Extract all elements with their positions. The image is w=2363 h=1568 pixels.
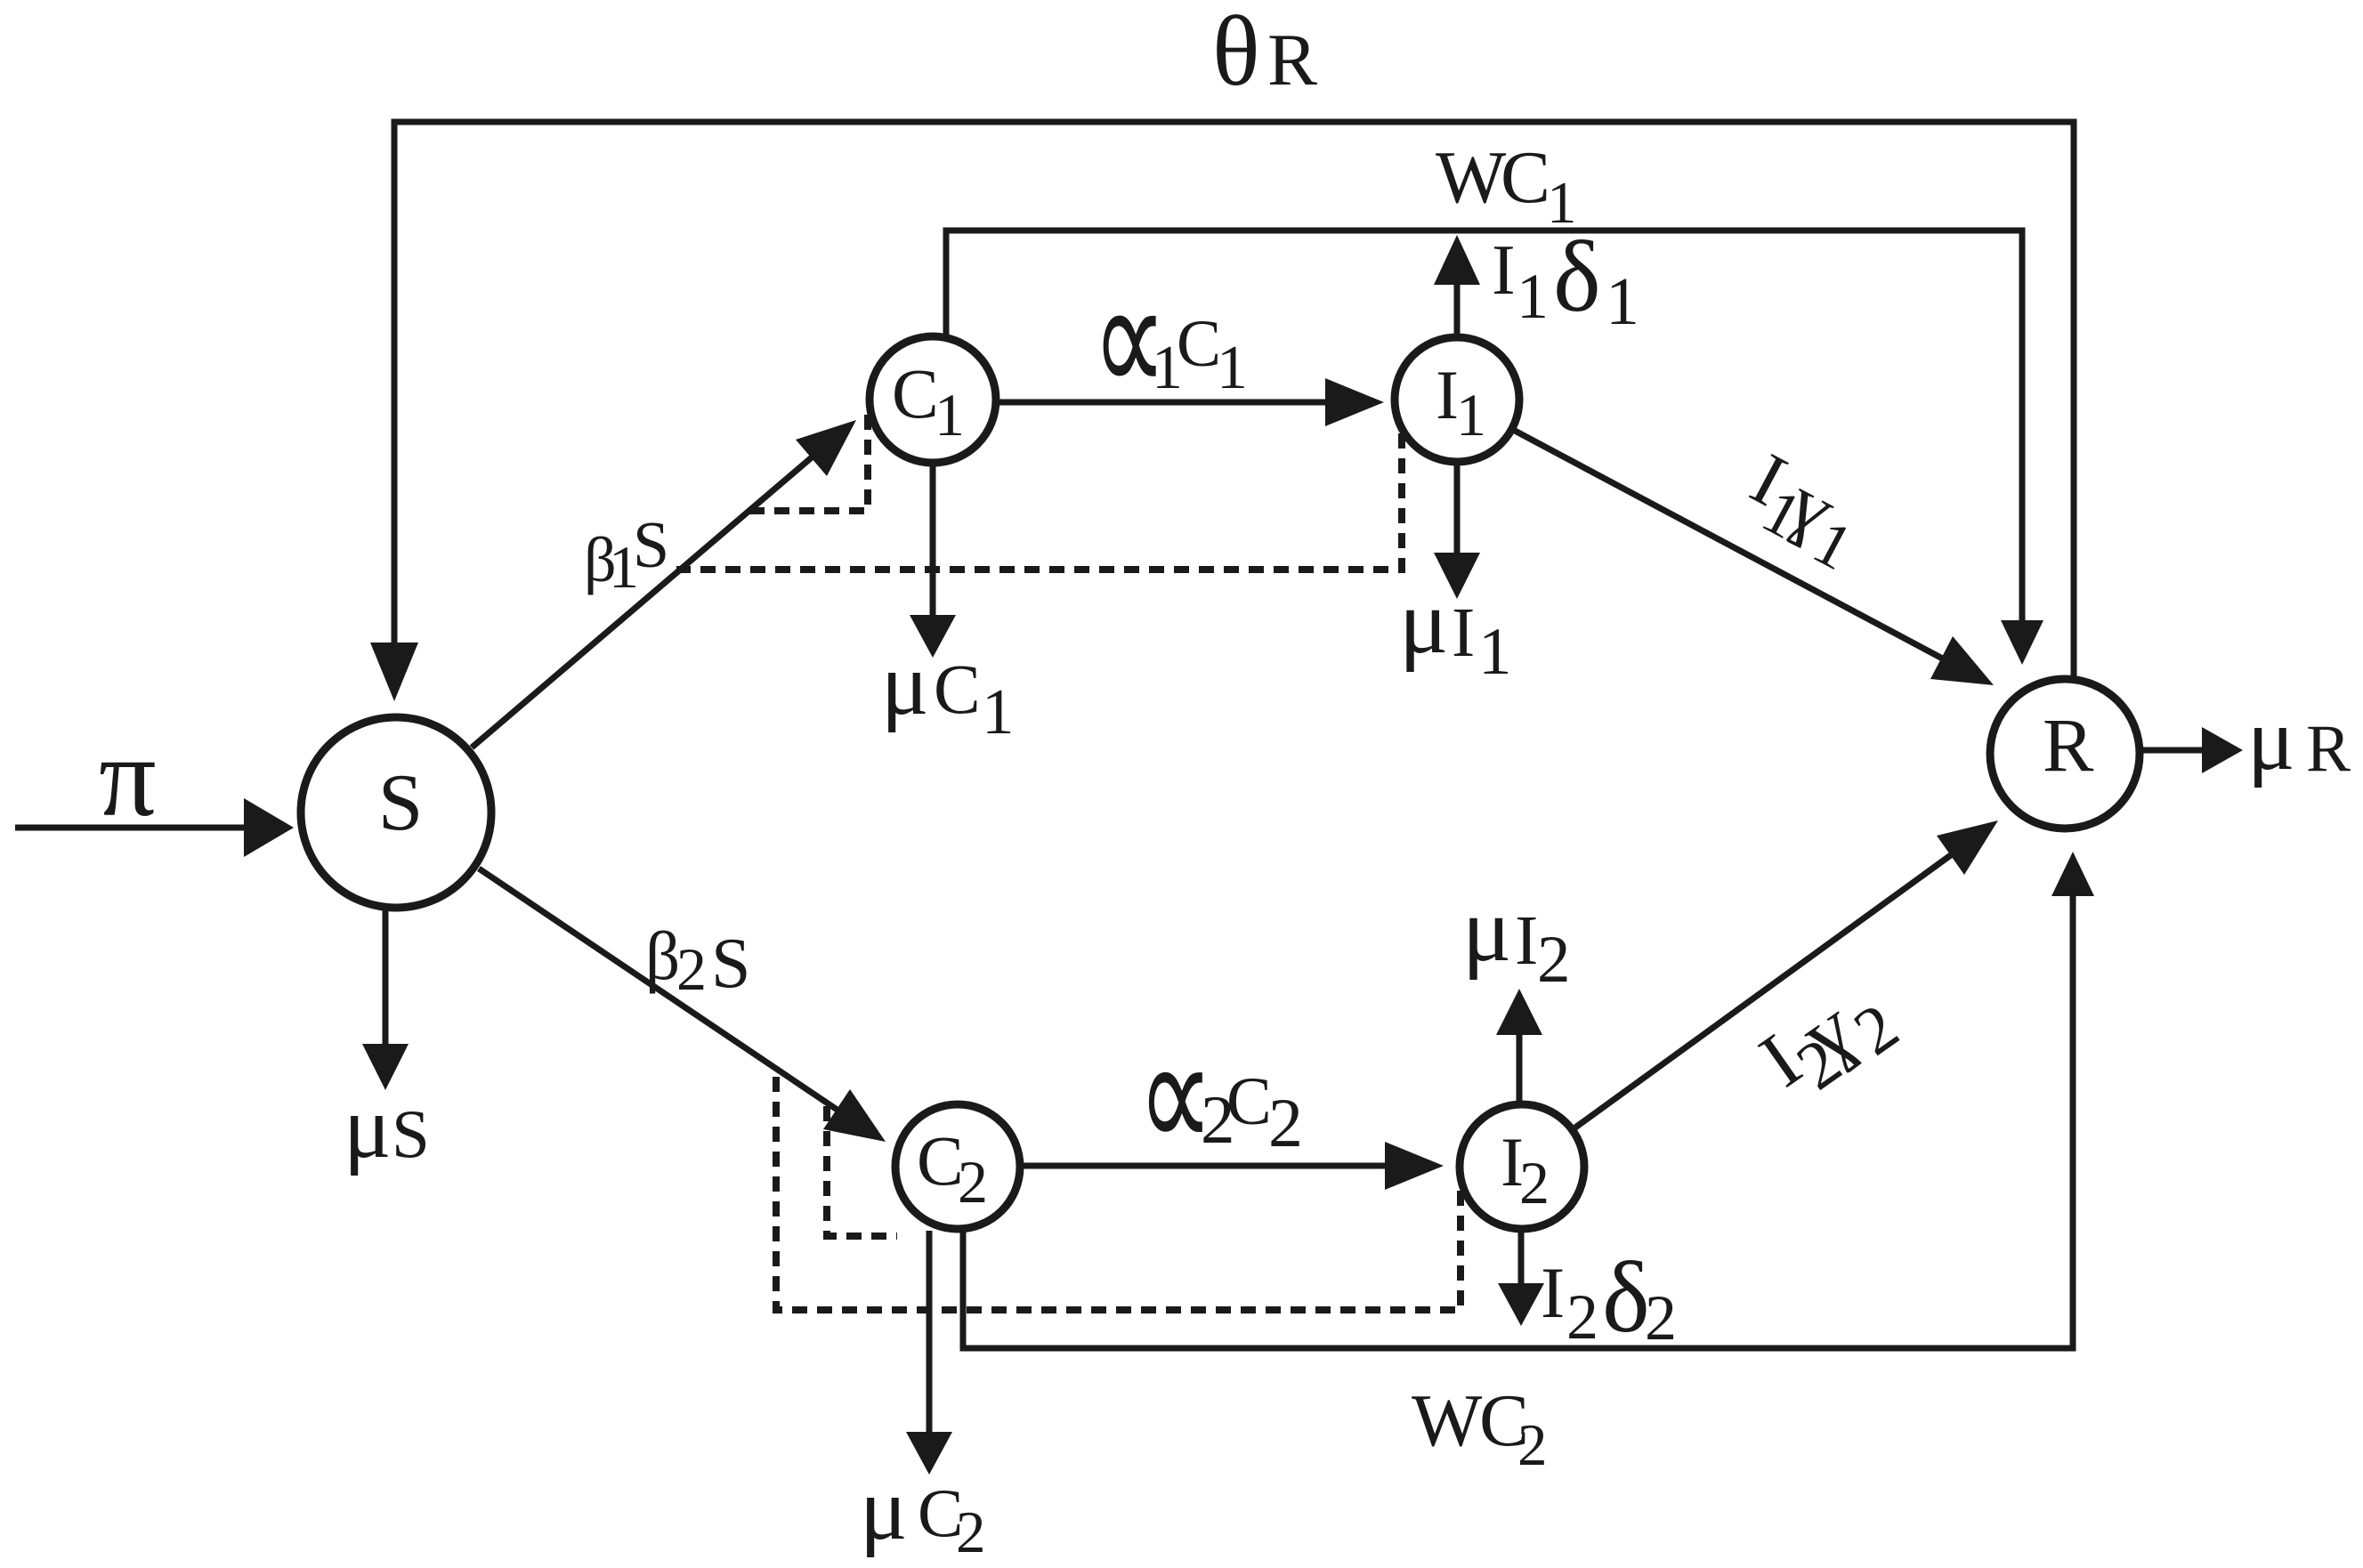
svg-text:1: 1: [1217, 334, 1248, 402]
arrow alpha2C2 from C2 to I2: [1024, 1142, 1444, 1190]
svg-text:θ: θ: [1212, 0, 1260, 107]
label I1gamma1: [1728, 438, 1880, 584]
label muI1: [1399, 571, 1512, 689]
arrow beta2S from S to C2: [479, 869, 886, 1142]
wire WC1 loop from C1 top to R top: [946, 230, 2043, 665]
arrow muS out of S: [362, 910, 409, 1090]
node I2 label: [1501, 1123, 1550, 1216]
svg-text:R: R: [1267, 19, 1317, 101]
svg-text:R: R: [2306, 712, 2351, 786]
label alpha2C2: [1137, 1007, 1303, 1184]
svg-text:1: 1: [1606, 264, 1639, 339]
svg-text:W: W: [1436, 136, 1507, 219]
svg-text:C: C: [934, 651, 981, 729]
arrow beta1S from S to C1: [472, 420, 856, 748]
dashed feedback line C2 to beta2S: [827, 1106, 897, 1236]
svg-text:1: 1: [1456, 381, 1486, 449]
svg-text:2: 2: [676, 935, 707, 1003]
arrow muR out of R: [2143, 727, 2243, 773]
svg-text:C: C: [892, 356, 939, 433]
svg-text:μ: μ: [344, 1078, 392, 1176]
svg-text:μ: μ: [1462, 879, 1511, 981]
label I2delta2: [1541, 1241, 1677, 1354]
svg-text:S: S: [711, 925, 751, 1003]
label I2gamma2: [1745, 960, 1912, 1122]
svg-text:2: 2: [1566, 1281, 1598, 1353]
svg-text:2: 2: [956, 1499, 986, 1564]
label muS: [344, 1078, 430, 1176]
svg-text:C: C: [917, 1123, 964, 1200]
label beta1S: [584, 509, 669, 601]
label muR: [2247, 690, 2351, 788]
svg-text:W: W: [1412, 1379, 1483, 1462]
label beta2S: [645, 917, 751, 1003]
svg-text:I: I: [1492, 231, 1516, 310]
arrow I1delta1 up out of I1: [1434, 235, 1480, 335]
svg-text:μ: μ: [1399, 571, 1448, 673]
label muI2: [1462, 879, 1571, 997]
node C1 label: [892, 356, 965, 449]
svg-text:μ: μ: [881, 634, 929, 733]
wire WC2 loop from C2 bottom to R bottom: [963, 852, 2094, 1348]
dashed feedback line I2 to beta2S: [776, 1071, 1461, 1310]
svg-text:1: 1: [935, 381, 965, 449]
arrow I2delta2 down out of I2: [1498, 1231, 1544, 1326]
svg-text:C: C: [1177, 307, 1221, 381]
svg-text:S: S: [392, 1095, 430, 1172]
label WC2: [1412, 1379, 1548, 1478]
svg-text:π: π: [99, 714, 157, 840]
arrow alpha1C1 from C1 to I1: [999, 378, 1384, 426]
svg-text:δ: δ: [1553, 220, 1601, 333]
label WC1: [1436, 136, 1577, 236]
svg-text:S: S: [378, 757, 424, 847]
node I1 label: [1436, 356, 1486, 449]
svg-text:μ: μ: [860, 1459, 908, 1558]
arrow pi into S: [15, 798, 294, 857]
arrow muI1 down out of I1: [1434, 464, 1480, 599]
label muC2: [860, 1459, 986, 1565]
svg-text:2: 2: [1537, 923, 1571, 997]
svg-text:C: C: [1501, 136, 1550, 219]
svg-text:2: 2: [1519, 1149, 1550, 1216]
dashed feedback line C1 to beta1S: [742, 415, 868, 511]
svg-text:1: 1: [1478, 615, 1512, 689]
svg-text:2: 2: [1268, 1084, 1303, 1161]
node S circle: [301, 717, 491, 908]
arrow muC2 out of C2: [906, 1231, 952, 1475]
svg-text:2: 2: [1645, 1282, 1677, 1354]
wire thetaR loop from R up over the top into S: [370, 122, 2074, 701]
svg-text:I: I: [1541, 1252, 1565, 1333]
svg-text:1: 1: [1517, 261, 1549, 332]
label alpha1C1: [1092, 252, 1248, 430]
label thetaR: [1212, 0, 1317, 107]
svg-text:μ: μ: [2247, 690, 2295, 788]
svg-text:2: 2: [958, 1148, 988, 1216]
svg-text:S: S: [633, 509, 669, 582]
dashed feedback line I1 to beta1S: [676, 433, 1402, 570]
svg-text:I: I: [1515, 902, 1538, 980]
node C1 circle: [870, 336, 996, 463]
svg-text:R: R: [2043, 702, 2094, 788]
svg-text:β: β: [645, 917, 680, 994]
node R circle: [1990, 679, 2140, 828]
node C2 label: [917, 1123, 988, 1216]
svg-text:C: C: [1226, 1064, 1272, 1139]
svg-text:I: I: [1452, 594, 1475, 672]
arrow I2gamma2 from I2 to R: [1575, 820, 1998, 1128]
label muC1: [881, 634, 1015, 748]
arrow I1gamma1 from I1 to R: [1515, 431, 1994, 685]
arrow muC1 out of C1: [910, 465, 956, 658]
svg-text:2: 2: [1517, 1412, 1548, 1478]
arrow muI2 up out of I2: [1496, 989, 1542, 1103]
node I2 circle: [1460, 1104, 1584, 1229]
svg-text:δ: δ: [1602, 1241, 1650, 1354]
node C2 circle: [895, 1104, 1020, 1229]
label I1delta1: [1492, 220, 1639, 339]
svg-text:1: 1: [982, 675, 1015, 748]
node I1 circle: [1395, 337, 1519, 462]
